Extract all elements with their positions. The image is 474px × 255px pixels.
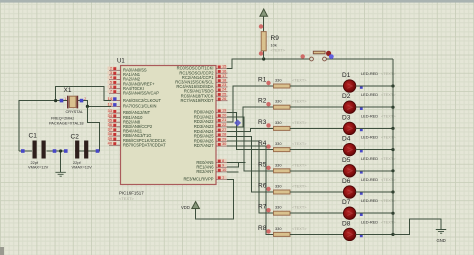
svg-text:1: 1	[222, 175, 224, 180]
U1 left pin 13 RA7/OSC1/CLKIN	[108, 102, 157, 109]
wire RD1 pin20 riser down to R5 row	[227, 117, 269, 171]
svg-text:LED-RED: LED-RED	[361, 198, 378, 203]
svg-text:CRYSTAL: CRYSTAL	[66, 109, 84, 114]
U1 left pin 40 RB7/ICSPDAT/ICDDAT	[108, 140, 167, 147]
U1 right pin 19 RD0/AN20	[194, 108, 228, 115]
U1 right pin 10 RE2/AN7	[196, 167, 227, 174]
U1 right pin 30 RD7/AN27	[194, 141, 228, 148]
U1 right pin 17 RC2/AN14/CCP1	[182, 73, 228, 80]
svg-text:LED-RED: LED-RED	[361, 177, 378, 182]
wire RD3 pin22 riser up to R2 row	[227, 107, 269, 127]
svg-text:R2: R2	[258, 98, 267, 105]
junction bus node D5	[391, 169, 394, 172]
U1 left pin 39 RB6/ICSPCLK/ICDCLK	[108, 136, 167, 143]
resistor R1 330	[258, 77, 307, 89]
wire R1 to LED D1	[290, 85, 344, 87]
wire R3 to LED D3	[290, 127, 344, 129]
svg-text:330: 330	[275, 120, 282, 125]
wire stub RE0 pin8	[227, 162, 246, 164]
svg-text:D8: D8	[342, 220, 351, 227]
svg-text:330: 330	[275, 226, 282, 231]
wire cap midpoint down to ground	[60, 151, 62, 172]
top window border band	[0, 0, 474, 3]
svg-text:PACKAGE=XTAL18: PACKAGE=XTAL18	[49, 120, 84, 125]
wire LED D7 to cathode bus	[356, 212, 394, 214]
U1 right pin 24 RC5/AN17/SDO	[184, 87, 228, 94]
ground symbol right	[436, 230, 446, 244]
R4 left lead	[269, 149, 274, 151]
svg-text:330: 330	[275, 141, 282, 146]
svg-text:<TEXT>: <TEXT>	[292, 162, 307, 167]
svg-text:C1: C1	[29, 133, 38, 140]
resistor R5 330	[258, 161, 307, 173]
svg-text:R6: R6	[258, 183, 267, 190]
wire crystal pin 2 to U1 pin 13	[78, 101, 111, 107]
U1 right pin 20 RD1/AN21	[194, 112, 228, 119]
LED D8 LED-RED	[342, 219, 396, 240]
svg-text:<TEXT>: <TEXT>	[381, 113, 396, 118]
svg-text:<TEXT>: <TEXT>	[292, 226, 307, 231]
wire RD2 pin21 riser up to R1 row	[227, 86, 269, 122]
svg-text:LED-RED: LED-RED	[361, 71, 378, 76]
svg-text:R4: R4	[258, 140, 267, 147]
svg-text:<TEXT>: <TEXT>	[292, 141, 307, 146]
junction bus node D7	[391, 212, 394, 215]
svg-text:R5: R5	[258, 161, 267, 168]
resistor R3 330	[258, 119, 307, 130]
U1 left pin 35 RB2/AN8	[108, 117, 141, 124]
wire C1 left lead up to OSC2 node	[19, 101, 56, 151]
svg-text:<TEXT>: <TEXT>	[292, 99, 307, 104]
U1 right pin 23 RC4/AN16/SDI/SDA	[176, 82, 227, 89]
U1 right pin 9 RE1/AN6	[196, 162, 227, 169]
U1 left pin 37 RB4/AN11	[108, 127, 143, 134]
wire node to crystal pin 1	[56, 100, 67, 102]
svg-text:330: 330	[275, 205, 282, 210]
R2 left lead	[269, 106, 274, 108]
svg-text:LED-RED: LED-RED	[361, 156, 378, 161]
LED D6 LED-RED	[342, 177, 396, 198]
wire LED D1 to cathode bus	[356, 85, 394, 87]
R8 left lead	[269, 233, 274, 235]
wire LED D8 to cathode bus	[356, 233, 394, 235]
LED D1 LED-RED	[342, 71, 396, 92]
U1 right pin 16 RC1/SOSCI/CCP2	[179, 68, 227, 75]
R7 left lead	[269, 212, 274, 214]
U1 left pin 4 RA2/AN2	[108, 75, 141, 82]
svg-text:R9: R9	[271, 35, 280, 42]
svg-text:<TEXT>: <TEXT>	[381, 92, 396, 97]
wire LED D4 to cathode bus	[356, 149, 394, 151]
U1 right pin 26 RC7/AN19/RX/DT	[181, 96, 228, 103]
junction bus node D8	[391, 233, 394, 236]
wire LED D2 to cathode bus	[356, 106, 394, 108]
svg-text:R1: R1	[258, 77, 267, 84]
wire OSC1 node down to C2 right lead	[87, 106, 99, 151]
wire stub RE2 pin10	[227, 171, 239, 173]
power terminal (VCC arrow) above R9	[260, 9, 268, 16]
wire stub RE1 pin9	[227, 163, 239, 168]
svg-text:PIC16F1517: PIC16F1517	[119, 191, 144, 196]
svg-text:D5: D5	[342, 157, 351, 164]
R9 bottom lead	[263, 51, 265, 59]
svg-text:RB7/ICSPDAT/ICDDAT: RB7/ICSPDAT/ICDDAT	[123, 142, 166, 147]
U1 left pin 7 RA5/AN4/SS/VCAP	[108, 89, 160, 96]
sheet origin marker (blue diamond)	[234, 119, 241, 126]
U1 left pin 34 RB1/AN10	[108, 113, 144, 120]
U1 left pin 6 RA4/T0CKI	[108, 84, 144, 91]
junction bus node D4	[391, 148, 394, 151]
junction bus node D2	[391, 106, 394, 109]
junction C1-C2 ground node	[59, 149, 62, 152]
LED D3 LED-RED	[342, 113, 396, 134]
svg-text:26: 26	[222, 96, 226, 101]
wire U1 pin15 RC0 up to pullup/button net	[227, 59, 310, 69]
U1 right pin 25 RC6/AN18/TX/CK	[181, 91, 228, 98]
ground symbol left	[55, 172, 65, 176]
svg-text:RC7/AN19/RX/DT: RC7/AN19/RX/DT	[181, 98, 214, 103]
U1 right pin 8 RE0/AN5	[196, 158, 227, 165]
wire R5 to LED D5	[290, 170, 344, 172]
svg-text:LED-RED: LED-RED	[361, 92, 378, 97]
svg-text:RA5/AN4/SS/VCAP: RA5/AN4/SS/VCAP	[123, 91, 159, 96]
junction crystal pin2 node	[86, 105, 89, 108]
svg-text:7: 7	[110, 89, 112, 94]
svg-text:VDD: VDD	[181, 205, 190, 210]
junction bus node D1	[391, 84, 394, 87]
svg-text:330: 330	[275, 184, 282, 189]
svg-text:<TEXT>: <TEXT>	[271, 48, 286, 53]
wire LED D5 to cathode bus	[356, 170, 394, 172]
svg-text:D7: D7	[342, 199, 351, 206]
junction R9 bottom node	[262, 57, 265, 60]
wire RD4 pin27 riser up to R3 row	[227, 128, 269, 131]
U1 right pin 15 RC0/SOSCO/T1CKI	[177, 64, 228, 71]
svg-text:D3: D3	[342, 114, 351, 121]
wire LED D6 to cathode bus	[356, 191, 394, 193]
wire LED D3 to cathode bus	[356, 127, 394, 129]
U1 right pin 29 RD6/AN26	[194, 136, 228, 143]
svg-text:<TEXT>: <TEXT>	[292, 205, 307, 210]
R5 left lead	[269, 170, 274, 172]
svg-text:<TEXT>: <TEXT>	[381, 156, 396, 161]
svg-text:VMAX=12V: VMAX=12V	[28, 165, 49, 170]
U1 left pin 36 RB3/AN9/CCP2	[108, 122, 153, 129]
wire R6 to LED D6	[290, 191, 344, 193]
svg-text:13: 13	[108, 102, 112, 107]
svg-text:<TEXT>: <TEXT>	[292, 120, 307, 125]
svg-text:2: 2	[84, 97, 86, 101]
svg-text:R8: R8	[258, 225, 267, 232]
junction bus node D6	[391, 190, 394, 193]
svg-text:RE2/AN7: RE2/AN7	[196, 169, 214, 174]
svg-text:R3: R3	[258, 119, 267, 126]
svg-text:D6: D6	[342, 178, 351, 185]
svg-text:LED-RED: LED-RED	[361, 219, 378, 224]
capacitor C2	[64, 134, 99, 170]
wire LED cathode bus vertical	[392, 59, 394, 234]
wire bus to ground	[393, 219, 441, 234]
capacitor C1	[21, 133, 56, 170]
power terminal VDD	[181, 202, 199, 211]
LED D7 LED-RED	[342, 198, 396, 219]
wire R4 to LED D4	[290, 149, 344, 151]
svg-text:330: 330	[275, 78, 282, 83]
resistor R7 330	[258, 204, 307, 216]
crystal X1	[49, 87, 86, 125]
svg-text:<TEXT>: <TEXT>	[381, 219, 396, 224]
LED D2 LED-RED	[342, 92, 396, 113]
svg-text:C2: C2	[71, 134, 80, 141]
svg-text:LED-RED: LED-RED	[361, 135, 378, 140]
svg-text:R7: R7	[258, 204, 267, 211]
U1 right pin 22 RD3/AN23	[194, 122, 228, 129]
svg-text:<TEXT>: <TEXT>	[292, 184, 307, 189]
R6 left lead	[269, 191, 274, 193]
U1 left pin 14 RA6/OSC2/CLKOUT	[108, 96, 162, 103]
push button	[301, 51, 334, 61]
svg-text:RD7/AN27: RD7/AN27	[194, 143, 214, 148]
microcontroller U1 PIC16F1517 body	[117, 59, 216, 202]
U1 right pin 27 RD4/AN24	[194, 127, 228, 134]
U1 left pin 38 RB5/AN13/T1G	[108, 131, 152, 138]
LED D4 LED-RED	[342, 135, 396, 156]
U1 left pin 3 RA1/AN1	[108, 70, 141, 77]
wire button to LED cathode bus	[327, 58, 394, 60]
svg-text:<TEXT>: <TEXT>	[381, 135, 396, 140]
svg-text:D2: D2	[342, 93, 351, 100]
resistor R2 330	[258, 98, 307, 110]
junction crystal pin1 node	[54, 99, 57, 102]
svg-text:330: 330	[275, 162, 282, 167]
svg-text:GND: GND	[437, 238, 446, 243]
resistor R9 10k pullup	[259, 16, 286, 59]
wire U1 pin1 MCLR to VDD terminal	[196, 179, 234, 219]
svg-text:<TEXT>: <TEXT>	[292, 78, 307, 83]
resistor R6 330	[258, 183, 307, 195]
wire RD7 pin30 riser down to R8 row	[227, 146, 269, 234]
svg-text:1: 1	[64, 97, 66, 101]
U1 left pin 33 RB0/AN12/INT	[108, 108, 151, 115]
svg-text:D4: D4	[342, 136, 351, 143]
R1 left lead	[269, 85, 274, 87]
svg-text:X1: X1	[64, 87, 72, 94]
svg-text:<TEXT>: <TEXT>	[119, 196, 135, 201]
R9 top lead	[263, 16, 265, 31]
bottom-left corner smudge	[0, 247, 4, 255]
svg-text:RA7/OSC1/CLKIN: RA7/OSC1/CLKIN	[123, 104, 156, 109]
wire C2 plates node	[75, 150, 89, 152]
junction bus node D3	[391, 127, 394, 130]
wire R8 to LED D8	[290, 233, 344, 235]
wire C1 right to C2 left	[47, 150, 66, 152]
U1 right pin 21 RD2/AN22	[194, 117, 228, 124]
resistor R8 330	[258, 225, 307, 237]
svg-text:330: 330	[275, 99, 282, 104]
wire OSC2 node to U1 pin 14	[56, 87, 111, 101]
wire RD5 pin28 riser down to R6 row	[227, 136, 269, 192]
svg-text:<TEXT>: <TEXT>	[381, 177, 396, 182]
resistor R4 330	[258, 140, 307, 152]
U1 left pin 2 RA0/AN0/SS	[108, 66, 147, 73]
svg-text:RE3/MCLR/VPP: RE3/MCLR/VPP	[183, 177, 213, 182]
svg-text:RA6/OSC2/CLKOUT: RA6/OSC2/CLKOUT	[123, 98, 161, 103]
svg-text:D1: D1	[342, 72, 351, 79]
svg-text:<TEXT>: <TEXT>	[381, 71, 396, 76]
U1 right pin 28 RD5/AN25	[194, 132, 228, 139]
wire RD6 pin29 riser down to R7 row	[227, 141, 269, 213]
wire R7 to LED D7	[290, 212, 344, 214]
LED D5 LED-RED	[342, 156, 396, 177]
wire RD0 pin19 riser down to R4 row	[227, 112, 269, 149]
R3 left lead	[269, 127, 274, 129]
svg-text:<TEXT>: <TEXT>	[381, 198, 396, 203]
U1 left pin 5 RA3/AN3/VREF+	[108, 79, 156, 86]
U1 right pin 18 RC3/AN15/SCK/SCL	[175, 78, 227, 85]
svg-text:VMAX=12V: VMAX=12V	[72, 164, 93, 169]
wire into C1 left plate	[19, 150, 32, 152]
U1 right pin 1 RE3/MCLR/VPP	[183, 175, 227, 182]
wire R2 to LED D2	[290, 106, 344, 108]
svg-text:LED-RED: LED-RED	[361, 113, 378, 118]
svg-text:U1: U1	[117, 59, 125, 65]
